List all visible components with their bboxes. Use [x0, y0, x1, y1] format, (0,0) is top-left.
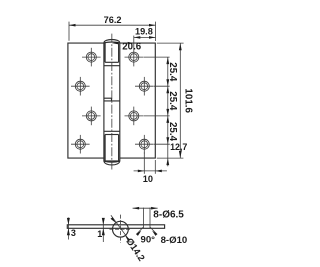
- dim 19.8 arrow left: [134, 36, 141, 39]
- svg-text:1: 1: [97, 229, 102, 239]
- dim 1 arrow top: [102, 218, 105, 225]
- svg-text:90°: 90°: [141, 235, 156, 246]
- chain arrow down at row4: [166, 137, 169, 144]
- side view barrel circle: [113, 221, 129, 237]
- dim 101.6 arrow bottom: [179, 151, 182, 158]
- dim 10 arrow right: [155, 170, 162, 173]
- dim 8-dia6.5 arrow left: [133, 207, 140, 210]
- dim 20.6 arrow right: [128, 42, 134, 44]
- knuckle joint step: [111, 98, 113, 101]
- knuckle joint line mid b: [104, 100, 120, 102]
- dim 1 line: [102, 218, 104, 242]
- dim 10 ext edge: [154, 160, 156, 174]
- dim 1 arrow bottom: [102, 228, 105, 235]
- dim 8-dia6.5 line: [133, 207, 158, 209]
- pin centerline: [111, 34, 113, 170]
- knuckle joint line mid a: [104, 97, 112, 99]
- chain dim line 25.4: [167, 57, 169, 166]
- svg-text:25.4: 25.4: [167, 91, 178, 111]
- svg-text:12,7: 12,7: [170, 142, 187, 152]
- svg-text:25.4: 25.4: [167, 62, 178, 82]
- hole r2 left: [71, 77, 90, 96]
- svg-text:76.2: 76.2: [104, 15, 122, 25]
- dim 76.2 line: [69, 24, 156, 26]
- pin cap inner side top: [104, 43, 106, 63]
- svg-text:10: 10: [143, 174, 153, 184]
- knuckle bottom cap dome: [104, 161, 120, 165]
- countersink slope left: [136, 227, 143, 234]
- chain bowtie row3: [166, 109, 169, 123]
- svg-text:3: 3: [71, 228, 76, 238]
- dim 76.2 ext right: [155, 22, 157, 41]
- pin cap inner side bottom: [104, 135, 106, 162]
- hole r4 right: [135, 135, 154, 154]
- dim 19.8 arrow right: [149, 36, 156, 39]
- knuckle barrel sides: [103, 43, 105, 161]
- svg-text:25.4: 25.4: [167, 122, 178, 142]
- dim 8-dia6.5 arrow right: [151, 207, 158, 210]
- circle centerline vertical: [119, 215, 121, 243]
- chain bowtie row2: [166, 79, 169, 93]
- dim 3 arrow bottom: [67, 228, 70, 235]
- dim 3 arrow top: [67, 218, 70, 225]
- svg-text:19.8: 19.8: [135, 27, 153, 37]
- chain arrow outside below bottom: [166, 158, 169, 165]
- dim 20.6 arrow left: [112, 42, 118, 44]
- ext row4 right: [154, 143, 170, 145]
- ext row1 right: [143, 56, 169, 58]
- dim 19.8 ext to hole: [133, 36, 135, 48]
- knuckle joint line top a: [105, 61, 119, 63]
- angle arrow left: [136, 231, 141, 236]
- ext row3 right: [143, 115, 169, 117]
- dim 10 ext hole: [143, 153, 145, 174]
- dim 76.2 ext left: [68, 22, 70, 41]
- dia 14.2 arrow lower: [125, 236, 130, 242]
- ext bottom edge right: [157, 157, 184, 159]
- svg-text:8-Ø6.5: 8-Ø6.5: [153, 210, 184, 221]
- countersink wall right: [149, 208, 151, 229]
- hole r4 left: [71, 135, 90, 154]
- dim 10 line: [134, 170, 167, 172]
- knuckle joint line top b: [104, 65, 120, 67]
- hole r1 right: [125, 48, 144, 67]
- dim 10 arrow left: [138, 170, 145, 173]
- svg-text:101.6: 101.6: [182, 88, 193, 113]
- ext row2 right: [154, 85, 170, 87]
- countersink slope right: [150, 227, 157, 234]
- svg-text:8-Ø10: 8-Ø10: [161, 235, 188, 246]
- knuckle joint line low a: [104, 130, 120, 132]
- side view leaf bar: [67, 225, 164, 229]
- angle arrow right: [152, 231, 157, 236]
- hole r2 right: [135, 77, 154, 96]
- hinge leaf outline (front view): [68, 43, 155, 158]
- countersink wall left: [142, 208, 144, 229]
- ext top edge right: [157, 42, 184, 44]
- dim 3 line: [67, 218, 69, 240]
- hole r3 right: [125, 107, 144, 126]
- circle centerline horizontal: [110, 228, 132, 230]
- dia 14.2 arrow upper: [111, 217, 116, 223]
- dim 101.6 line: [179, 43, 181, 158]
- dim 76.2 arrow left: [69, 24, 76, 27]
- hole r1 left: [82, 48, 101, 67]
- chain arrow up at row1: [166, 57, 169, 64]
- knuckle joint line bottom cap: [104, 160, 120, 162]
- dia 14.2 leader line: [111, 215, 129, 240]
- dim 76.2 arrow right: [149, 24, 156, 27]
- knuckle top cap dome: [104, 40, 120, 43]
- hole r3 left: [82, 107, 101, 126]
- knuckle joint line low b: [105, 134, 119, 136]
- dim 101.6 arrow top: [179, 43, 182, 50]
- dim 19.8 line: [134, 36, 156, 38]
